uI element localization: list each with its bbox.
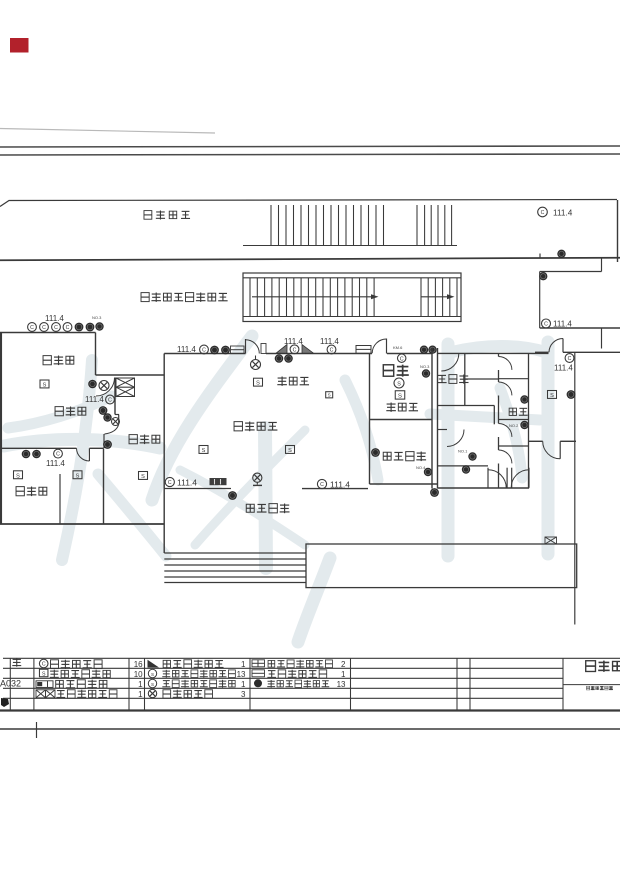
svg-text:C: C: [30, 325, 34, 331]
svg-text:S: S: [397, 382, 401, 388]
svg-text:S: S: [550, 393, 554, 399]
svg-text:S: S: [151, 672, 154, 677]
svg-text:C: C: [541, 210, 545, 216]
svg-text:111.4: 111.4: [177, 345, 196, 354]
svg-text:S: S: [76, 473, 80, 479]
svg-text:111.4: 111.4: [177, 478, 197, 488]
svg-text:C: C: [66, 325, 70, 331]
svg-text:C: C: [568, 356, 572, 362]
svg-text:NO.1: NO.1: [458, 449, 468, 454]
svg-text:S: S: [42, 671, 46, 677]
svg-text:10: 10: [134, 670, 143, 679]
svg-text:111.4: 111.4: [45, 314, 64, 323]
svg-text:111.4: 111.4: [85, 395, 104, 404]
svg-text:C: C: [42, 662, 46, 668]
svg-text:A032: A032: [0, 679, 21, 689]
svg-text:C: C: [202, 348, 206, 354]
svg-text:C: C: [544, 322, 548, 328]
svg-text:S: S: [141, 474, 145, 480]
svg-text:C: C: [330, 348, 334, 354]
svg-text:2: 2: [341, 660, 346, 669]
svg-text:1: 1: [138, 680, 143, 689]
svg-text:1: 1: [341, 670, 346, 679]
svg-text:1: 1: [241, 680, 246, 689]
svg-text:111.4: 111.4: [46, 459, 65, 468]
svg-text:111.4: 111.4: [554, 364, 573, 373]
svg-text:1: 1: [138, 690, 143, 699]
svg-text:111.4: 111.4: [553, 320, 572, 329]
svg-text:S: S: [151, 682, 154, 687]
svg-text:KM.6: KM.6: [393, 345, 403, 350]
svg-text:S: S: [256, 381, 260, 387]
svg-text:NO.3: NO.3: [92, 315, 102, 320]
svg-text:S: S: [16, 473, 20, 479]
svg-text:C: C: [168, 480, 172, 486]
svg-text:S: S: [288, 448, 292, 454]
svg-text:111.4: 111.4: [320, 337, 339, 346]
svg-text:3: 3: [241, 690, 246, 699]
svg-text:S: S: [398, 394, 402, 400]
svg-text:C: C: [320, 482, 324, 488]
svg-text:S: S: [43, 382, 47, 388]
svg-text:16: 16: [134, 660, 143, 669]
svg-text:13: 13: [337, 680, 346, 689]
svg-text:C: C: [108, 398, 112, 404]
svg-text:C: C: [400, 356, 404, 362]
svg-text:13: 13: [237, 670, 246, 679]
svg-text:C: C: [54, 325, 58, 331]
svg-text:C: C: [293, 347, 297, 353]
svg-text:NO.2: NO.2: [509, 423, 519, 428]
svg-text:C: C: [56, 452, 60, 458]
svg-text:111.4: 111.4: [553, 209, 573, 218]
svg-text:NO.3: NO.3: [420, 364, 430, 369]
svg-text:1: 1: [241, 660, 246, 669]
svg-text:C: C: [42, 325, 46, 331]
svg-text:S: S: [328, 393, 331, 398]
svg-text:S: S: [202, 448, 206, 454]
svg-text:NO.4: NO.4: [416, 465, 426, 470]
svg-text:111.4: 111.4: [284, 337, 303, 346]
